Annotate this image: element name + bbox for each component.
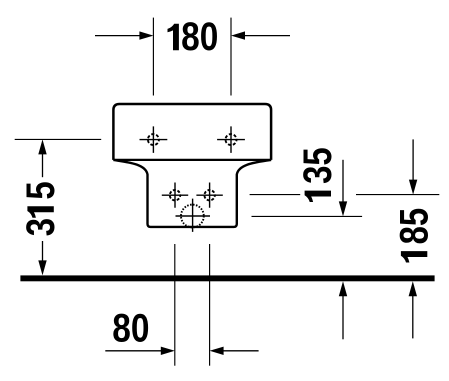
dim 180: right extension line	[230, 18, 232, 96]
dim 185: upper leader with down arrow	[409, 139, 417, 194]
dim 185: extension line at lower holes level, left segment	[250, 194, 301, 196]
dim 315: top extension line	[15, 138, 102, 140]
dim 315: dimension line lower segment with down arrow	[38, 241, 46, 275]
fixing hole crosshair left (lower)	[162, 183, 188, 208]
dim 80: right leader with arrow	[210, 347, 259, 355]
dim 80: left leader with arrow	[105, 347, 175, 355]
dim 315: value label (rotated)	[19, 181, 63, 236]
svg-text:85: 85	[392, 208, 436, 245]
dim 180: left extension line	[152, 18, 154, 96]
svg-text:5: 5	[19, 181, 63, 199]
bidet body lower section outline	[113, 160, 271, 227]
dim 185: lower leader below floor with up arrow	[409, 281, 417, 338]
dim 135: value label (rotated)	[296, 147, 340, 202]
svg-text:5: 5	[296, 147, 340, 165]
bidet body step edge	[113, 159, 271, 161]
svg-text:3: 3	[19, 218, 63, 236]
dim 135: upper leader with down arrow	[339, 160, 347, 217]
svg-text:3: 3	[296, 166, 340, 184]
drain circle with crosshair	[176, 199, 211, 232]
dim 315: dimension line upper segment with up arrow	[38, 139, 46, 177]
fixing hole crosshair right (lower)	[196, 183, 222, 208]
dim 80: right extension line	[209, 244, 211, 366]
dim 180: left leader with arrow	[95, 31, 153, 39]
dim 135: extension line at drain level	[252, 215, 363, 217]
dim 185: extension line at lower holes level, right segment	[356, 194, 439, 196]
dim 135: lower leader below floor with up arrow	[339, 281, 347, 339]
floor line	[20, 275, 434, 281]
fixing hole crosshair right (upper)	[217, 126, 245, 152]
svg-text:80: 80	[112, 307, 149, 351]
dim 185: value label (rotated)	[392, 208, 436, 263]
dim 80: left extension line	[174, 244, 176, 366]
dim 180: right leader with arrow	[231, 31, 290, 39]
dim 180: value label	[168, 15, 219, 59]
fixing hole crosshair left (upper)	[140, 126, 168, 152]
bidet body upper section outline	[113, 104, 271, 160]
svg-text:80: 80	[181, 15, 218, 59]
